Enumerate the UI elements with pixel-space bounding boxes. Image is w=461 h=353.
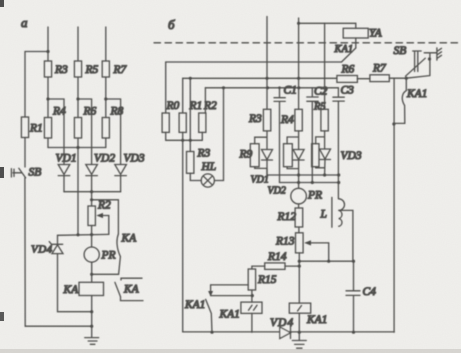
- diode VD1b: [262, 150, 273, 161]
- wire bypass2: [78, 99, 92, 165]
- wire bus under R4 R6 R8: [48, 147, 106, 149]
- wire loop2 close: [287, 160, 299, 188]
- diode VD2b: [293, 150, 304, 161]
- node junction B C3 drop: [337, 181, 340, 184]
- wire coil to ground: [91, 296, 93, 338]
- resistor R2 rheostat: [88, 206, 95, 226]
- node junction bus blade: [210, 331, 213, 334]
- wire KA branch bottom: [92, 257, 121, 275]
- switch SB button cap: [11, 169, 14, 177]
- wire R7 to SB node: [389, 54, 430, 78]
- wire diode bus: [64, 191, 121, 193]
- wire loop3 close: [316, 160, 325, 176]
- relay coil KA1: [289, 303, 310, 313]
- node junction lamp line col2: [297, 86, 300, 89]
- contact KA auxiliary bottom lead: [121, 297, 144, 301]
- node junction lamp column: [222, 86, 225, 89]
- wire VD4 bottom lead: [58, 254, 92, 312]
- wire PRb to R12: [298, 204, 300, 208]
- node junction C1 tap: [278, 86, 281, 89]
- wire column2 bottom: [77, 138, 79, 148]
- resistor R0: [162, 113, 169, 132]
- diode VD2: [86, 165, 98, 192]
- node junction col1 bypass: [46, 97, 49, 100]
- contact KA1b blade arc: [394, 91, 406, 124]
- wire R0 rail: [165, 62, 167, 113]
- wire wiper drop R13: [328, 243, 330, 261]
- resistor R13 rheostat: [296, 233, 304, 253]
- lamp HL: [201, 174, 214, 187]
- node junction diode bus: [90, 190, 93, 193]
- wire column1 top stub: [47, 27, 49, 61]
- wire col2 long drop: [77, 148, 79, 235]
- wire snubber line: [183, 77, 337, 79]
- wire supply tick to YA: [299, 23, 356, 28]
- switch SBb blade: [406, 58, 426, 76]
- resistor R12: [295, 208, 303, 227]
- wire tap P corner: [210, 285, 212, 293]
- wire YA to contact: [355, 38, 357, 48]
- wire R6-R7: [357, 78, 370, 80]
- wire column3 top stub: [105, 27, 107, 61]
- resistor R8: [102, 118, 109, 139]
- scan smear bottom edge: [0, 349, 461, 353]
- wire R3b to lamp: [190, 173, 201, 180]
- dashed panel line: [154, 42, 458, 44]
- wire R1b top: [182, 78, 184, 113]
- gas arrester PR: [84, 247, 99, 262]
- wire lamp line: [205, 87, 338, 89]
- node junction R3b column: [189, 139, 192, 142]
- node junction wiper: [327, 260, 330, 263]
- wire loop1 split: [255, 131, 267, 150]
- capacitor C2: [307, 88, 318, 183]
- relay coil KA: [79, 282, 104, 295]
- contact block KA1 slashes: [241, 302, 262, 313]
- wire R12 to R13: [298, 227, 300, 233]
- contact KA blade: [117, 234, 120, 257]
- wire top feed line: [166, 61, 342, 63]
- node junction R3b tap: [189, 77, 192, 80]
- switch SBb fixed contact tick: [424, 52, 437, 54]
- contact KA1 blade lower left: [206, 299, 212, 332]
- wiper arrow R2: [99, 215, 109, 217]
- wire R14 to R15: [252, 266, 265, 269]
- wire R2b top: [202, 88, 205, 141]
- wire column2 mid: [77, 77, 79, 118]
- arrowhead tap: [208, 291, 213, 297]
- node junction lamp line end: [266, 86, 269, 89]
- wire L tap to rail: [339, 210, 353, 261]
- contact KA auxiliary blade: [115, 282, 121, 296]
- resistor R14: [265, 263, 285, 270]
- node junction rail KA1: [392, 122, 395, 125]
- wire common line B: [280, 182, 339, 184]
- ground part a: [85, 338, 99, 345]
- wire column3 mid: [105, 77, 107, 118]
- wire tap P: [211, 284, 249, 286]
- node junction col1-R1: [46, 50, 49, 53]
- electromagnet YA: [343, 28, 368, 38]
- wire resistor bottoms connector: [166, 139, 203, 141]
- contact KA1b stub: [405, 78, 407, 90]
- node junction R15 bottom: [251, 294, 254, 297]
- wire horizontal above VD4: [58, 233, 109, 236]
- node junction A C3 drop: [337, 173, 340, 176]
- wire supply stub right: [298, 18, 300, 109]
- wire loop3 split: [316, 131, 325, 149]
- node junction col2 bypass: [76, 97, 79, 100]
- wire supply stub left: [266, 17, 268, 110]
- resistor R5: [74, 61, 81, 77]
- resistor R1b: [179, 113, 186, 132]
- wire R3b column: [189, 78, 191, 151]
- wire lamp right riser: [214, 88, 223, 181]
- node junction lamp line col3: [324, 86, 327, 89]
- node junction B C2: [311, 181, 314, 184]
- contact KA auxiliary top lead: [121, 278, 142, 280]
- wire left rail down: [24, 178, 26, 326]
- ground part b: [292, 332, 306, 348]
- diode VD1: [58, 165, 70, 192]
- wire tap Q: [211, 295, 253, 297]
- diode VD3: [115, 165, 127, 192]
- resistor R1: [21, 117, 28, 138]
- node junction C4 rail: [352, 260, 355, 263]
- wire loop2 split: [287, 131, 299, 150]
- node junction mid col: [298, 260, 301, 263]
- node junction col3 bypass: [104, 97, 107, 100]
- resistor R6b: [337, 76, 358, 83]
- node junction supply tick: [297, 22, 300, 25]
- node junction col2 bottom: [76, 233, 79, 236]
- switch SB blade: [19, 168, 26, 178]
- node junction coil bus: [298, 331, 301, 334]
- node junction snubber col1: [265, 77, 268, 80]
- contact KA1 blade top: [342, 48, 356, 62]
- node junction rail bottom: [90, 325, 93, 328]
- resistor R9: [250, 144, 259, 167]
- resistor R3c: [263, 109, 270, 131]
- wire column1 mid: [47, 77, 49, 118]
- wire bypass3: [106, 99, 121, 165]
- resistor R4b: [295, 109, 302, 131]
- wire R14 right link: [285, 265, 299, 267]
- wire KA branch top: [92, 200, 119, 234]
- resistor R7: [102, 61, 109, 77]
- node junction B PR: [297, 181, 300, 184]
- resistor R7b: [370, 75, 389, 82]
- inductor L core: [331, 197, 333, 227]
- resistor R4: [44, 118, 51, 139]
- capacitor C3: [333, 88, 344, 199]
- node junction snubber col2: [297, 77, 300, 80]
- wall anchor: [437, 48, 442, 60]
- node junction C4 bus: [352, 331, 355, 334]
- node junction bus col2: [76, 146, 79, 149]
- resistor R3b: [187, 152, 194, 174]
- scan edge artifact left lower: [0, 312, 4, 321]
- wire column R5 drop: [324, 23, 326, 109]
- resistor R3: [44, 61, 51, 77]
- capacitor C4: [346, 261, 360, 332]
- wire R15 bottom: [251, 290, 253, 302]
- node junction PR bottom: [90, 273, 93, 276]
- node junction KA1 branch: [405, 77, 408, 80]
- wire VD4 top lead: [57, 235, 59, 244]
- wire R2 to PR: [91, 226, 93, 248]
- resistor R15: [248, 269, 255, 290]
- wire loop1 close: [255, 160, 267, 175]
- resistor R5b: [321, 109, 328, 131]
- resistor R11: [312, 144, 319, 167]
- wire bottom left horizontal: [25, 325, 92, 327]
- wire contact block down: [251, 313, 253, 332]
- node junction rail: [181, 139, 184, 142]
- wire column3 bottom: [105, 138, 107, 148]
- scan edge artifact left middle: [0, 167, 4, 178]
- node junction A col2: [297, 173, 300, 176]
- scan edge artifact top-left: [0, 0, 4, 7]
- diode VD4b: [280, 327, 291, 339]
- wire coil KA1 down: [298, 313, 300, 332]
- wire bottom bus: [183, 331, 395, 333]
- wire mid horizontal to C4 rail: [299, 260, 353, 262]
- wire R1b rail down: [182, 132, 184, 332]
- wire right rail: [393, 78, 395, 332]
- wire column2 top stub: [77, 27, 79, 61]
- inductor L winding: [339, 199, 345, 227]
- wire R1 to switch SB: [24, 138, 26, 168]
- wire R0 bottom: [165, 132, 167, 140]
- node junction A col3: [323, 173, 326, 176]
- node junction R14: [298, 265, 301, 268]
- node junction R2-PR wire: [90, 233, 93, 236]
- capacitor C1: [274, 88, 285, 183]
- resistor R2b: [199, 113, 206, 132]
- wiper arrow R13: [306, 242, 329, 244]
- wire R1 branch from column1: [25, 52, 48, 118]
- gas arrester PRb: [291, 188, 307, 204]
- wire wiper drop: [108, 216, 110, 235]
- node junction SB contact: [428, 57, 431, 60]
- resistor R6: [74, 118, 81, 139]
- wire column1 bottom: [47, 138, 49, 148]
- wire R13 down: [298, 253, 300, 303]
- wire R2 feed: [91, 192, 93, 206]
- node junction bottom: [90, 310, 93, 313]
- diode VD3b: [320, 149, 331, 160]
- node junction KA branch tap: [90, 198, 93, 201]
- resistor R10: [284, 144, 293, 167]
- wire common line A: [267, 168, 339, 175]
- zener diode VD4: [49, 242, 63, 254]
- switch SBb plunger: [413, 51, 422, 72]
- wire PR to coil: [91, 262, 93, 282]
- switch SB actuator rod: [13, 172, 22, 174]
- wire bypass1: [48, 99, 64, 165]
